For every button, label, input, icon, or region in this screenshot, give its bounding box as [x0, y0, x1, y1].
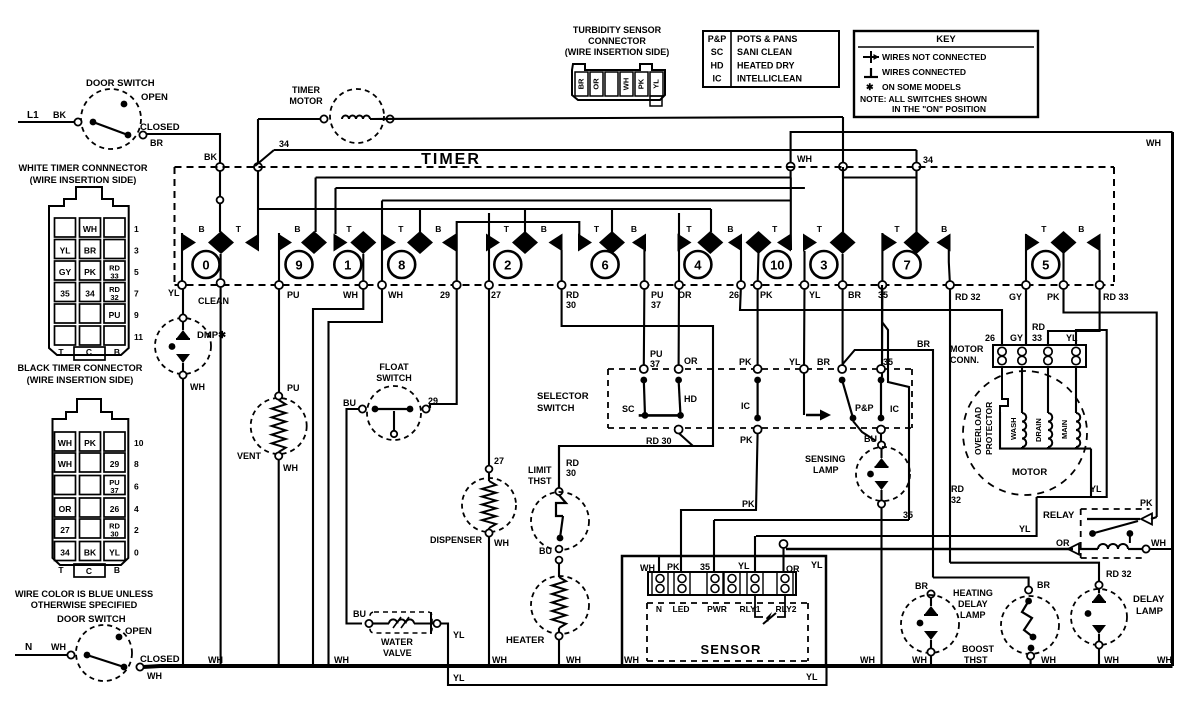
junction between limit and heater	[556, 546, 563, 553]
wire YL bus to RLY1 pin	[754, 536, 756, 572]
door switch pivot terminal	[74, 118, 81, 125]
svg-text:B: B	[114, 347, 120, 357]
wire cam5 T contact stub	[1025, 234, 1027, 250]
svg-text:OR: OR	[59, 504, 72, 514]
svg-text:2: 2	[134, 525, 139, 535]
svg-text:BR: BR	[917, 339, 930, 349]
svg-text:N: N	[656, 604, 662, 614]
svg-text:TURBIDITY SENSOR: TURBIDITY SENSOR	[573, 25, 662, 35]
svg-text:TIMER: TIMER	[421, 151, 481, 168]
wire PU border to VENT	[278, 289, 280, 392]
node on border x=843	[839, 163, 847, 171]
svg-text:1: 1	[344, 258, 351, 273]
svg-text:C: C	[86, 566, 92, 576]
svg-text:SWITCH: SWITCH	[376, 373, 412, 383]
svg-text:YL: YL	[809, 290, 821, 300]
svg-text:PU: PU	[651, 290, 664, 300]
wire 34 bus y=150	[274, 149, 917, 151]
sensor connector strip	[648, 572, 796, 595]
water valve left terminal	[365, 620, 372, 627]
HEATER resistor element	[558, 563, 560, 577]
svg-text:LIMIT: LIMIT	[528, 465, 552, 475]
svg-text:HEATER: HEATER	[506, 635, 544, 646]
wire drop to cam2 diamond	[524, 209, 526, 232]
wire cam6 T link from cam8 B y=222	[457, 222, 580, 250]
float switch actuator stub	[393, 411, 395, 430]
svg-text:27: 27	[60, 525, 70, 535]
timer motor (dashed circle)	[330, 89, 384, 143]
wire 35 vertical from selector to lamp	[881, 373, 883, 377]
svg-text:LAMP: LAMP	[960, 610, 986, 620]
wire OR bus y=549 (RLY2 to relay)	[780, 540, 788, 548]
wire 35 branch to sensor PWR	[882, 322, 909, 520]
limit thermostat top terminal	[555, 488, 562, 495]
svg-text:WH: WH	[1104, 655, 1119, 665]
svg-text:C: C	[86, 347, 92, 357]
svg-text:WH: WH	[566, 655, 581, 665]
sensor outer WH box	[622, 556, 826, 666]
DMP bottom terminal	[179, 371, 186, 378]
svg-text:CLEAN: CLEAN	[198, 296, 229, 306]
svg-text:DELAY: DELAY	[1133, 594, 1165, 605]
svg-text:29: 29	[110, 459, 120, 469]
svg-text:RD: RD	[951, 484, 964, 494]
svg-text:P&P: P&P	[855, 403, 874, 413]
svg-text:OR: OR	[592, 78, 601, 90]
relay PK arrow contact	[1151, 517, 1157, 519]
timer cam switch 8	[388, 251, 415, 278]
door switch open contact	[121, 101, 128, 108]
wire PK cam10 diamond down	[757, 252, 760, 366]
svg-text:4: 4	[694, 258, 702, 273]
svg-text:BR: BR	[150, 138, 163, 148]
svg-text:HEATED DRY: HEATED DRY	[737, 60, 795, 70]
timer cam switch 3	[810, 251, 837, 278]
svg-text:LAMP: LAMP	[813, 465, 839, 475]
motor windings bottom bus	[1000, 412, 1091, 449]
svg-text:33: 33	[1032, 333, 1042, 343]
wire drop to cam4 diamond	[710, 209, 712, 232]
wire WH relay to right bus	[1150, 548, 1173, 550]
door switch bottom (dashed circle)	[76, 625, 132, 681]
svg-text:HD: HD	[711, 60, 724, 70]
wire drop to cam8 diamond	[419, 209, 421, 232]
svg-text:LAMP: LAMP	[1136, 606, 1164, 617]
svg-text:BU: BU	[539, 546, 552, 556]
svg-text:B: B	[114, 565, 120, 575]
svg-text:PK: PK	[760, 290, 773, 300]
wire 34 diagonal from border	[255, 150, 274, 166]
svg-text:SWITCH: SWITCH	[537, 403, 575, 414]
DISPENSER bottom terminal	[485, 529, 492, 536]
wire 27 cam2 left contact down	[488, 240, 490, 466]
motor connector strip	[993, 345, 1086, 367]
timer box bottom dashed border	[175, 284, 1115, 286]
wire timer-motor drop x=258	[257, 119, 259, 209]
water valve dashed outline	[370, 612, 432, 633]
svg-text:MAIN: MAIN	[1060, 420, 1069, 439]
wire BR from door switch to timer cam 0	[146, 134, 220, 164]
wire timer motor line y=119	[258, 118, 320, 120]
svg-text:8: 8	[134, 459, 139, 469]
svg-text:SENSOR: SENSOR	[701, 642, 762, 657]
wire boost to bus	[1030, 660, 1032, 666]
svg-text:RD 32: RD 32	[1106, 569, 1132, 579]
svg-text:PK: PK	[84, 438, 97, 448]
svg-text:DELAY: DELAY	[958, 599, 988, 609]
svg-text:RD: RD	[1032, 322, 1045, 332]
relay dashed box	[1081, 508, 1150, 510]
svg-text:7: 7	[134, 289, 139, 299]
svg-text:BR: BR	[577, 78, 586, 89]
relay armature blade	[1089, 530, 1096, 537]
overload protector element	[1000, 367, 1008, 412]
svg-text:WH: WH	[334, 655, 349, 665]
svg-text:YL: YL	[453, 673, 465, 683]
svg-text:CLOSED: CLOSED	[140, 654, 180, 665]
door switch bottom blade	[87, 655, 124, 667]
svg-text:T: T	[236, 224, 242, 234]
svg-text:B: B	[727, 224, 733, 234]
selector IC switch (PK)	[754, 365, 762, 373]
DMP top terminal	[179, 314, 186, 321]
limit thermostat switch element	[556, 495, 566, 516]
svg-text:(WIRE INSERTION SIDE): (WIRE INSERTION SIDE)	[30, 175, 137, 185]
float switch (dashed circle)	[367, 386, 421, 440]
boost thermostat bottom terminal	[1027, 652, 1034, 659]
svg-text:34: 34	[60, 548, 70, 558]
selector SC switch (PU37)	[640, 365, 648, 373]
svg-text:SANI CLEAN: SANI CLEAN	[737, 47, 792, 57]
svg-text:YL: YL	[738, 561, 750, 571]
svg-text:B: B	[941, 224, 947, 234]
sensing lamp bottom terminal	[878, 500, 885, 507]
wire 34 corner down x=916.5 to cam 7	[915, 150, 917, 232]
wire 35 cam7 left contact down	[881, 250, 884, 366]
svg-text:PK: PK	[739, 357, 752, 367]
svg-text:HEATING: HEATING	[953, 588, 993, 598]
svg-text:WIRES NOT CONNECTED: WIRES NOT CONNECTED	[882, 52, 986, 62]
water valve right terminal bar	[430, 612, 432, 634]
wire PU37 cam6 right contact down	[643, 250, 646, 366]
svg-text:YL: YL	[789, 357, 801, 367]
svg-text:KEY: KEY	[936, 34, 956, 45]
wire 29 down from border	[430, 250, 457, 408]
svg-text:37: 37	[650, 359, 660, 369]
svg-text:T: T	[1041, 224, 1047, 234]
wire RD30 cam2 right contact down	[559, 250, 713, 488]
svg-text:PU: PU	[650, 349, 663, 359]
DMP neon lamp symbol	[182, 322, 184, 330]
svg-text:T: T	[398, 224, 404, 234]
svg-text:35: 35	[60, 289, 70, 299]
wire BR cam3 diamond down	[842, 254, 844, 366]
svg-text:SELECTOR: SELECTOR	[537, 391, 589, 402]
svg-text:PU: PU	[287, 383, 300, 393]
delay lamp bottom terminal	[1095, 641, 1102, 648]
resistor VENT (dashed circle)	[251, 398, 307, 454]
sensing lamp top terminal	[878, 441, 885, 448]
boost thermostat (dashed circle)	[1001, 596, 1059, 654]
svg-text:DISPENSER: DISPENSER	[430, 535, 483, 545]
svg-text:BR: BR	[848, 290, 861, 300]
svg-text:PU: PU	[109, 310, 121, 320]
timer cam switch 1	[334, 251, 361, 278]
selector P&P switch (BR)	[838, 365, 846, 373]
wire GY cam5 left contact down	[1025, 250, 1027, 345]
svg-text:30: 30	[566, 300, 576, 310]
svg-text:10: 10	[770, 258, 784, 273]
svg-text:WHITE TIMER CONNNECTOR: WHITE TIMER CONNNECTOR	[19, 163, 148, 173]
timer cam switch 9	[286, 251, 313, 278]
svg-text:0: 0	[134, 548, 139, 558]
wire CLEAN from cam0 diamond to bottom bus	[220, 254, 222, 666]
svg-text:SC: SC	[711, 47, 724, 57]
svg-text:MOTOR: MOTOR	[950, 344, 984, 354]
svg-text:YL: YL	[168, 288, 180, 298]
HEATER bottom terminal	[555, 632, 562, 639]
svg-text:9: 9	[134, 310, 139, 320]
float switch left terminal	[359, 405, 366, 412]
svg-text:BR: BR	[915, 581, 928, 591]
options legend box	[703, 31, 839, 87]
wire cam7 B contact drop to RD32	[948, 250, 950, 262]
resistor DISPENSER (dashed circle)	[462, 478, 516, 532]
boost thermostat top terminal	[1025, 586, 1032, 593]
timer cam switch 0	[193, 251, 220, 278]
svg-text:IC: IC	[890, 404, 900, 414]
svg-text:DOOR SWITCH: DOOR SWITCH	[86, 78, 155, 89]
wire cam0 B contact drop x=258	[257, 209, 259, 243]
sensor internal relay contact symbol	[755, 595, 763, 617]
svg-text:BR: BR	[1037, 580, 1050, 590]
svg-text:6: 6	[601, 258, 608, 273]
svg-text:ON SOME MODELS: ON SOME MODELS	[882, 82, 961, 92]
svg-text:GY: GY	[59, 267, 72, 277]
lamp DMP (dashed circle)	[155, 318, 211, 374]
svg-text:WH: WH	[1151, 538, 1166, 548]
selector SC-HD link bar	[639, 414, 681, 417]
wire heater to bus	[558, 640, 560, 666]
wire cam10 B contact drop	[790, 178, 792, 251]
svg-text:34: 34	[85, 289, 95, 299]
svg-text:5: 5	[1042, 258, 1049, 273]
svg-text:WH: WH	[624, 655, 639, 665]
white timer connector body	[49, 187, 129, 355]
svg-text:7: 7	[903, 258, 910, 273]
svg-text:3: 3	[820, 258, 827, 273]
wire BU float switch to water valve	[347, 409, 363, 624]
svg-text:8: 8	[398, 258, 405, 273]
svg-text:OTHERWISE SPECIFIED: OTHERWISE SPECIFIED	[31, 600, 138, 610]
svg-text:POTS & PANS: POTS & PANS	[737, 34, 797, 44]
right WH bus	[1171, 132, 1174, 666]
svg-text:B: B	[631, 224, 637, 234]
svg-text:26: 26	[110, 504, 120, 514]
svg-text:IN THE "ON" POSITION: IN THE "ON" POSITION	[892, 104, 986, 114]
wire cam4 T contact up stub	[678, 213, 680, 240]
wire RD30 into limit thermostat	[558, 446, 560, 488]
svg-text:WIRE COLOR IS BLUE UNLESS: WIRE COLOR IS BLUE UNLESS	[15, 589, 153, 599]
wire delay lamp to bus	[1098, 649, 1100, 666]
svg-text:FLOAT: FLOAT	[379, 362, 409, 372]
svg-text:35: 35	[700, 562, 710, 572]
timer motor coil	[342, 116, 370, 120]
svg-text:T: T	[58, 347, 64, 357]
svg-text:T: T	[772, 224, 778, 234]
svg-text:WH: WH	[1041, 655, 1056, 665]
svg-text:WH: WH	[58, 438, 72, 448]
wire YL cam0 left contact down	[181, 233, 183, 285]
heating delay lamp bottom terminal	[927, 648, 934, 655]
svg-text:6: 6	[134, 482, 139, 492]
delay lamp top terminal	[1095, 581, 1102, 588]
wire cam2 T contact up stub	[488, 213, 490, 240]
selector HD output to RD30	[675, 426, 683, 434]
svg-text:WH: WH	[492, 655, 507, 665]
svg-text:WH: WH	[51, 642, 66, 652]
wire 35 from lamp to sensor PWR pin and bus	[880, 508, 882, 666]
heater (dashed circle)	[531, 576, 589, 634]
turbidity connector tab	[650, 96, 662, 106]
wire WH from DMP to bottom bus	[182, 289, 184, 315]
sensing lamp neon symbol	[880, 449, 882, 458]
wire WH top corner to right bus	[791, 132, 1173, 178]
wire cam7 T contact stub	[881, 233, 883, 250]
svg-text:YL: YL	[1019, 524, 1031, 534]
svg-text:HD: HD	[684, 394, 697, 404]
svg-text:26: 26	[985, 333, 995, 343]
svg-text:30: 30	[566, 468, 576, 478]
svg-text:BR: BR	[817, 357, 830, 367]
timer cam switch 7	[894, 251, 921, 278]
svg-text:WIRES CONNECTED: WIRES CONNECTED	[882, 67, 966, 77]
timer cam switch 5	[1032, 251, 1059, 278]
float switch blade	[375, 408, 412, 410]
svg-text:OPEN: OPEN	[141, 92, 168, 103]
svg-text:T: T	[894, 224, 900, 234]
sensing lamp (dashed circle)	[856, 447, 910, 501]
wire bus line4 y=209 (timer motor to diamonds 8,2,6,4)	[258, 208, 711, 210]
svg-text:OR: OR	[684, 356, 698, 366]
key symbol wires connected	[864, 76, 878, 78]
selector switch dashed box	[608, 368, 912, 370]
heating delay lamp (dashed circle)	[901, 595, 959, 653]
black connector grid cells	[55, 432, 76, 451]
node WH on timer top border	[787, 163, 795, 171]
door switch bottom closed terminal	[136, 663, 143, 670]
svg-text:WASH: WASH	[1009, 418, 1018, 441]
wire OR cam4 left contact down	[678, 240, 681, 366]
timer motor left terminal	[320, 115, 327, 122]
wire L1 to door switch	[18, 121, 76, 123]
svg-text:CONNECTOR: CONNECTOR	[588, 36, 646, 46]
svg-text:MOTOR: MOTOR	[1012, 467, 1047, 478]
svg-text:SENSING: SENSING	[805, 454, 846, 464]
wire motor windings bus down to bottom wire	[1090, 449, 1092, 497]
svg-text:2: 2	[504, 258, 511, 273]
svg-text:BU: BU	[353, 609, 366, 619]
svg-text:B: B	[1078, 224, 1084, 234]
delay lamp neon symbol	[1098, 589, 1100, 593]
boost thermostat switch element	[1025, 598, 1032, 605]
svg-text:WH: WH	[190, 382, 205, 392]
timer cam switch 2	[494, 251, 521, 278]
svg-text:MOTOR: MOTOR	[289, 96, 323, 106]
svg-text:PK: PK	[1140, 498, 1153, 508]
wire motor-line corner down x=843	[842, 117, 844, 178]
door switch blade to closed contact	[93, 122, 128, 135]
heating delay lamp neon symbol	[930, 598, 932, 606]
svg-text:3: 3	[134, 246, 139, 256]
svg-text:WATER: WATER	[381, 637, 413, 647]
junction 27 above dispenser	[486, 466, 493, 473]
svg-text:T: T	[504, 224, 510, 234]
svg-text:WH: WH	[1157, 655, 1172, 665]
svg-text:BOOST: BOOST	[962, 644, 995, 654]
svg-text:WH: WH	[147, 671, 162, 681]
svg-text:26: 26	[729, 290, 739, 300]
svg-text:GY: GY	[1010, 333, 1023, 343]
DISPENSER resistor element	[488, 472, 490, 481]
svg-text:37: 37	[110, 486, 118, 495]
svg-text:B: B	[294, 224, 300, 234]
svg-text:T: T	[58, 565, 64, 575]
svg-text:27: 27	[491, 290, 501, 300]
timer motor right terminal	[386, 115, 393, 122]
limit thermostat (dashed circle)	[531, 492, 589, 550]
svg-text:PK: PK	[637, 78, 646, 89]
wire GY border to motor conn	[1025, 289, 1027, 345]
svg-text:BR: BR	[84, 246, 96, 256]
svg-text:RD 32: RD 32	[955, 292, 981, 302]
door switch top (dashed circle)	[81, 89, 141, 149]
junction circle on BK wire	[217, 197, 224, 204]
delay lamp (dashed circle)	[1071, 589, 1127, 645]
svg-text:T: T	[346, 224, 352, 234]
svg-text:PK: PK	[1047, 292, 1060, 302]
svg-text:WH: WH	[494, 538, 509, 548]
svg-text:OVERLOAD: OVERLOAD	[973, 407, 983, 455]
svg-text:B: B	[541, 224, 547, 234]
svg-text:GY: GY	[1009, 292, 1022, 302]
white connector grid cells	[55, 218, 76, 237]
svg-text:37: 37	[651, 300, 661, 310]
wire PU cam9 left contact down	[278, 233, 280, 285]
wire RD32 cam7 right contact down	[949, 262, 950, 563]
svg-text:YL: YL	[60, 246, 71, 256]
svg-text:THST: THST	[528, 476, 552, 486]
wire closed contact to bus	[143, 666, 1173, 667]
wire BU from P&P to lamp top	[853, 421, 876, 441]
svg-text:T: T	[686, 224, 692, 234]
wire bus line3 y=200.5 (cam8 T to cam10 B)	[382, 199, 791, 201]
svg-text:VALVE: VALVE	[383, 648, 412, 658]
svg-text:WH: WH	[283, 463, 298, 473]
svg-text:YL: YL	[109, 548, 120, 558]
heating delay lamp top terminal	[927, 590, 934, 597]
door switch bottom pivot	[67, 651, 74, 658]
turbidity sensor connector body	[572, 64, 665, 100]
svg-text:✱: ✱	[866, 82, 874, 92]
svg-text:1: 1	[134, 224, 139, 234]
svg-text:WH: WH	[208, 655, 223, 665]
key symbol wires not connected	[863, 56, 879, 58]
svg-text:WH: WH	[622, 78, 631, 91]
sensor connector N pin riser	[658, 556, 660, 572]
door switch closed terminal	[139, 131, 146, 138]
svg-text:9: 9	[295, 258, 302, 273]
